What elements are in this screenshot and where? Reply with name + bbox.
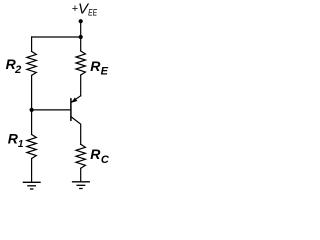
svg-text:C: C <box>101 154 110 166</box>
svg-text:E: E <box>101 66 109 78</box>
svg-text:EE: EE <box>88 8 97 19</box>
svg-text:R: R <box>90 58 101 74</box>
svg-text:1: 1 <box>18 139 24 150</box>
svg-text:2: 2 <box>14 64 21 76</box>
svg-text:R: R <box>90 146 101 162</box>
